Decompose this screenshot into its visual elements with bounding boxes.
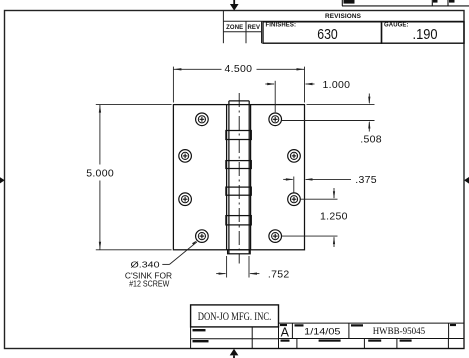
svg-text:630: 630 — [317, 26, 338, 43]
svg-text:REVISIONS: REVISIONS — [325, 14, 361, 20]
svg-text:.752: .752 — [268, 268, 290, 280]
svg-text:Ø.340: Ø.340 — [131, 259, 160, 269]
svg-text:4.500: 4.500 — [225, 63, 253, 75]
svg-text:HWBB-95045: HWBB-95045 — [373, 327, 426, 337]
svg-text:.375: .375 — [355, 174, 377, 186]
svg-text:1.000: 1.000 — [323, 79, 351, 91]
svg-text:#12 SCREW: #12 SCREW — [129, 279, 169, 289]
svg-text:1/14/05: 1/14/05 — [304, 326, 340, 337]
svg-text:GAUGE:: GAUGE: — [384, 23, 409, 29]
svg-text:.190: .190 — [413, 26, 438, 43]
svg-text:FINISHES:: FINISHES: — [266, 23, 297, 29]
svg-text:ZONE: ZONE — [226, 25, 243, 31]
svg-text:1.250: 1.250 — [320, 211, 348, 223]
svg-text:A: A — [281, 326, 290, 340]
svg-text:DON-JO MFG. INC.: DON-JO MFG. INC. — [198, 309, 272, 323]
svg-text:.508: .508 — [360, 134, 382, 146]
svg-text:REV: REV — [247, 25, 260, 31]
svg-text:5.000: 5.000 — [86, 167, 114, 179]
